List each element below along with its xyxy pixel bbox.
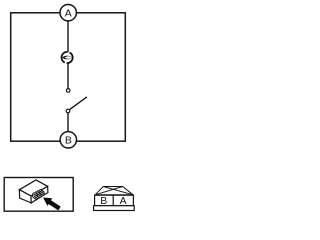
wire from lamp down to switch top terminal — [67, 64, 69, 89]
switch S top terminal — [66, 89, 70, 93]
lid diagonal brace 1 — [95, 187, 122, 195]
battery box: front-left face — [19, 190, 31, 203]
battery box: top face — [19, 180, 47, 196]
battery box: right end face — [31, 186, 48, 203]
battery holder: lid top edge — [95, 187, 133, 195]
wire from meter A down to lamp — [67, 22, 69, 53]
svg-text:A: A — [65, 9, 72, 20]
answer box frame — [4, 178, 73, 212]
switch S lever — [70, 97, 87, 110]
wire loop rectangle — [11, 13, 126, 141]
meter A — [60, 5, 76, 21]
compartment divider — [112, 195, 114, 206]
pointer arrow — [43, 198, 61, 211]
meter B — [60, 132, 76, 148]
battery box: connector block — [33, 190, 45, 200]
lamp L — [61, 52, 72, 63]
wire from switch bottom terminal down to meter B — [67, 113, 69, 132]
switch S bottom terminal — [66, 109, 70, 113]
battery holder: cell compartments — [95, 195, 134, 207]
svg-text:B: B — [65, 136, 72, 147]
lid diagonal brace 2 — [103, 187, 133, 195]
battery holder: base tray — [94, 206, 135, 211]
